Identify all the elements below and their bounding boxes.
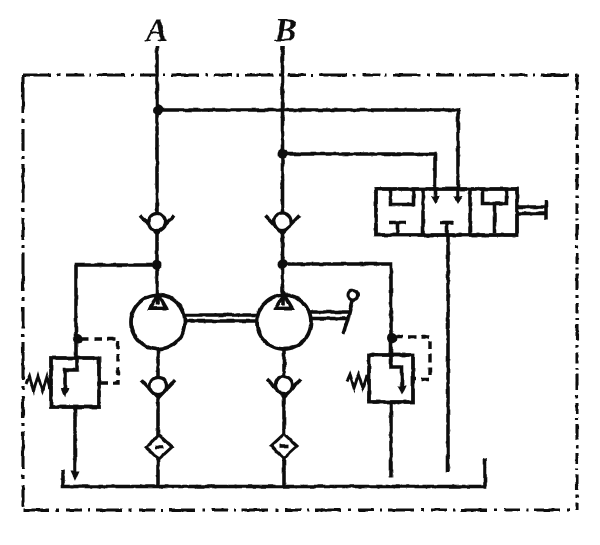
pump P2 (right, circle with up triangle) [257, 294, 311, 349]
wire: branch from A-line to left relief valve [76, 265, 157, 358]
pump P1 (left, circle with up triangle) [131, 294, 185, 349]
junction node on B-line (feed tap) [278, 149, 288, 159]
pilot line of RV1 (dashed) [81, 339, 118, 383]
check valve CV4 (B-line lower) [267, 377, 301, 398]
wire: B-line feed to directional valve (horizontal + drop) [283, 154, 436, 189]
wire: A-line below filter to manifold [156, 458, 160, 488]
spring of RV1 [26, 376, 51, 391]
enclosure border (dash-dot reservoir boundary) [23, 74, 577, 510]
DV1 centre position: blocked bottom port (T) [440, 223, 454, 236]
DV1 actuator: plunger pin on right [517, 200, 546, 220]
wire: branch from B-line to right relief valve [283, 264, 392, 355]
relief valve RV1 (left) body [51, 358, 99, 407]
shaft: double line between pumps [186, 315, 258, 321]
DV1 right position: both top ports to bottom (U with stem) [483, 189, 507, 233]
pilot line of RV2 (dashed) [395, 337, 430, 379]
junction node on B-line (relief branch) [278, 259, 288, 269]
check valve CV2 (B-line upper) [266, 213, 300, 234]
wire: port B vertical line (below check valve to pump) [281, 231, 285, 304]
relief valve RV2 (right) body [369, 355, 413, 402]
wire: left relief valve drain [73, 407, 77, 474]
DV1 centre position: inlet arrows [431, 189, 463, 204]
wire: pump 1 outlet lower segment [156, 349, 160, 376]
wire: bottom suction manifold [63, 458, 485, 487]
wire: pump 2 outlet lower segment [282, 349, 286, 375]
directional valve DV1 body (3-position) [376, 189, 517, 235]
junction node on A-line (feed tap) [153, 105, 163, 115]
junction node on A-line (relief branch) [152, 260, 162, 270]
DV1 left position: bridged top ports (U) [391, 189, 414, 205]
svg-text:A: A [144, 13, 168, 49]
junction node above left relief valve (pilot tap) [73, 334, 83, 344]
filter F2 (B-line diamond) [271, 434, 297, 458]
wire: A-line between lower check valve and filter [156, 397, 160, 436]
spring of RV2 [347, 375, 369, 389]
wire: directional valve tank drain [446, 235, 450, 472]
wire: right relief valve drain [389, 402, 393, 478]
check valve CV3 (A-line lower) [141, 378, 175, 399]
wire: port A vertical line (below check valve to pump) [155, 231, 159, 304]
filter F1 (A-line diamond) [146, 435, 172, 459]
DV1 left position: blocked bottom port (T) [389, 223, 406, 236]
wire: port A vertical line (top segment) [155, 46, 159, 214]
junction node above right relief valve (pilot tap) [387, 333, 397, 343]
arrow: left relief drain arrowhead [71, 471, 80, 481]
svg-text:B: B [273, 13, 296, 49]
wire: B-line between lower check valve and filter [282, 396, 286, 435]
wire: A-line feed to directional valve (horizontal + drop) [157, 110, 458, 189]
lever: control lever on pump P2 [309, 290, 358, 334]
wire: B-line below filter to manifold [282, 457, 286, 488]
check valve CV1 (A-line upper) [140, 214, 174, 234]
wire: port B vertical line (top segment) [281, 46, 285, 213]
